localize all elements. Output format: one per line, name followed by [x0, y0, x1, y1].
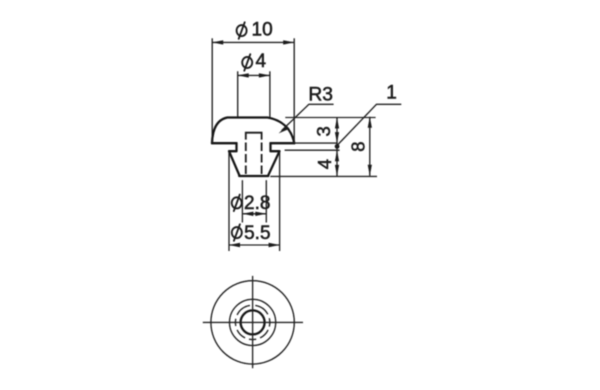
svg-text:2.8: 2.8	[244, 193, 270, 214]
svg-text:10: 10	[252, 19, 273, 40]
svg-text:1: 1	[386, 83, 397, 104]
svg-text:5.5: 5.5	[244, 223, 270, 244]
svg-text:3: 3	[313, 126, 334, 136]
svg-text:R3: R3	[308, 84, 333, 105]
svg-text:8: 8	[347, 142, 368, 152]
svg-text:4: 4	[256, 51, 267, 72]
svg-text:4: 4	[314, 159, 335, 169]
